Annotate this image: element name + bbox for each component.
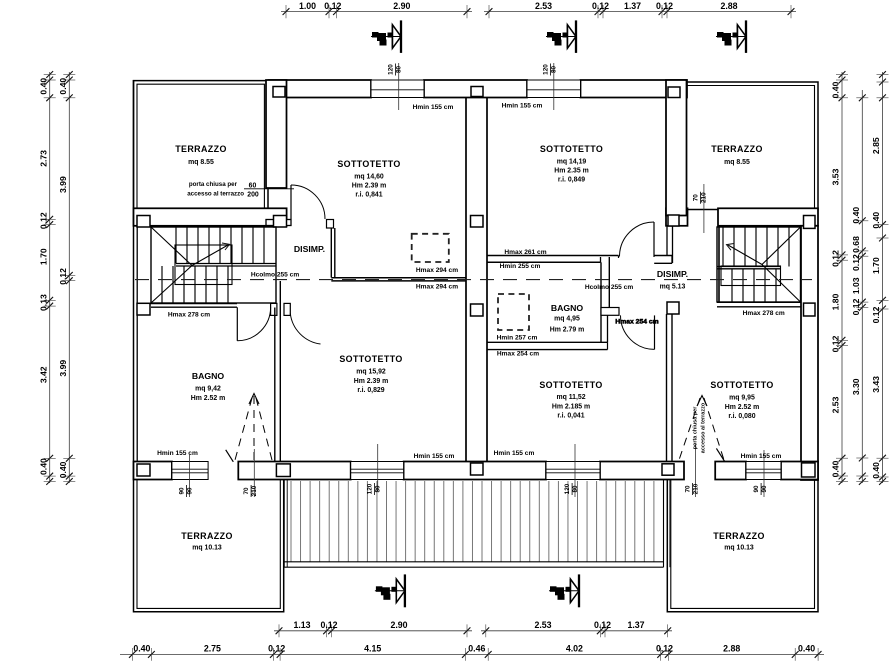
section marker top 3 <box>716 20 746 53</box>
window bottom 90/90 left <box>172 462 208 480</box>
svg-text:0.12: 0.12 <box>592 1 609 11</box>
window bottom 90/90 right <box>746 462 781 480</box>
svg-text:0.40: 0.40 <box>58 461 68 478</box>
section marker top 1 <box>371 20 401 53</box>
svg-text:Hmax 254 cm: Hmax 254 cm <box>497 351 539 358</box>
svg-text:0.12: 0.12 <box>831 335 841 352</box>
wall building left <box>134 80 138 478</box>
terrace bottom-left parapet <box>134 478 284 612</box>
wall bagno bottom right apt <box>487 342 608 349</box>
door centerline bottom right <box>695 444 697 497</box>
svg-text:SOTTOTETTO: SOTTOTETTO <box>339 354 402 364</box>
svg-text:0.12: 0.12 <box>851 298 861 315</box>
svg-text:120: 120 <box>387 64 394 75</box>
svg-text:0.40: 0.40 <box>871 462 881 479</box>
svg-text:1.00: 1.00 <box>299 1 316 11</box>
svg-text:1.13: 1.13 <box>293 620 310 630</box>
svg-text:porta chiusa per: porta chiusa per <box>693 406 699 450</box>
room label bagno left apt <box>191 371 225 402</box>
dimension chain right A <box>831 71 848 485</box>
svg-text:mq 10.13: mq 10.13 <box>724 545 754 552</box>
room label terrazzo bottom-left <box>181 531 233 552</box>
svg-text:Hmax 254 cm: Hmax 254 cm <box>615 319 658 326</box>
svg-text:0.40: 0.40 <box>871 212 881 229</box>
svg-text:0.40: 0.40 <box>133 644 150 654</box>
wall stub left apt below terrace door <box>266 220 291 226</box>
svg-text:Hmin 257 cm: Hmin 257 cm <box>497 335 538 342</box>
dimension chain right C <box>871 71 888 485</box>
label 90/90 bottom left <box>178 485 193 497</box>
svg-text:3.99: 3.99 <box>58 176 68 193</box>
window bottom 120/80 left <box>351 462 404 480</box>
section marker bottom 1 <box>375 574 405 607</box>
svg-text:r.i. 0,841: r.i. 0,841 <box>355 192 382 199</box>
svg-text:Hmax 278 cm: Hmax 278 cm <box>743 310 785 317</box>
room label sottotetto 11,52 <box>539 380 602 419</box>
door terrace top-left leaf and arc <box>291 185 325 219</box>
door lower room left apt arc <box>284 303 321 344</box>
svg-text:2.53: 2.53 <box>831 396 841 413</box>
room label terrazzo top-right <box>711 144 763 166</box>
svg-text:Hm 2.52 m: Hm 2.52 m <box>725 404 759 411</box>
svg-text:70: 70 <box>684 485 691 493</box>
window centerline bottom 90/90 right <box>763 450 765 497</box>
svg-text:90: 90 <box>761 485 768 493</box>
svg-text:mq 5.13: mq 5.13 <box>660 284 686 291</box>
dimension chain right B <box>851 90 868 485</box>
label 70/210 bottom right <box>684 483 699 495</box>
svg-text:Hm 2.79 m: Hm 2.79 m <box>550 327 584 334</box>
svg-text:210: 210 <box>251 485 258 496</box>
svg-text:90: 90 <box>178 487 185 495</box>
label 70/210 terrace right <box>692 192 707 204</box>
window top-right 120/80 <box>527 80 581 98</box>
svg-text:Hmin 155 cm: Hmin 155 cm <box>413 104 454 111</box>
svg-text:0.12: 0.12 <box>268 644 285 654</box>
svg-text:0.40: 0.40 <box>851 207 861 224</box>
svg-text:r.i. 0,041: r.i. 0,041 <box>557 412 584 419</box>
svg-text:mq 14,19: mq 14,19 <box>557 159 587 166</box>
wall bagno right wall right apt <box>601 257 609 342</box>
svg-text:0.40: 0.40 <box>831 81 841 98</box>
svg-text:1.03: 1.03 <box>851 277 861 294</box>
svg-text:Hm 2.39 m: Hm 2.39 m <box>354 378 388 385</box>
svg-text:3.43: 3.43 <box>871 376 881 393</box>
wall partition central right line <box>486 98 488 462</box>
wall below terrace right <box>666 208 818 226</box>
svg-text:SOTTOTETTO: SOTTOTETTO <box>337 159 400 169</box>
svg-text:Hcolmo 255 cm: Hcolmo 255 cm <box>585 284 634 291</box>
slope arrow right apt <box>679 396 724 461</box>
svg-text:70: 70 <box>692 194 699 202</box>
wall stairs left right apt <box>718 227 720 302</box>
wall stairs bottom left apt <box>139 304 237 308</box>
svg-text:120: 120 <box>564 483 571 494</box>
svg-text:80: 80 <box>395 66 402 74</box>
svg-text:0.46: 0.46 <box>468 644 485 654</box>
svg-text:DISIMP.: DISIMP. <box>657 269 688 279</box>
wall terrace-room divider right apt <box>666 80 687 216</box>
dimension chain left outer <box>39 71 56 485</box>
room label sottotetto 9,95 <box>710 380 773 420</box>
svg-text:4.15: 4.15 <box>364 644 381 654</box>
room label sottotetto 15,92 <box>339 354 402 394</box>
svg-text:80: 80 <box>572 485 579 493</box>
slope arrow left apt <box>235 394 272 461</box>
svg-text:2.73: 2.73 <box>39 150 49 167</box>
svg-text:80: 80 <box>374 485 381 493</box>
svg-text:2.75: 2.75 <box>204 644 221 654</box>
svg-text:Hmin 155 cm: Hmin 155 cm <box>157 450 198 457</box>
door centerline bottom left <box>253 449 255 497</box>
svg-text:3.30: 3.30 <box>851 378 861 395</box>
svg-text:120: 120 <box>542 64 549 75</box>
door bagno left apt leaf and arc <box>237 307 270 341</box>
staircase left <box>151 227 276 303</box>
svg-text:r.i. 0,080: r.i. 0,080 <box>728 413 755 420</box>
svg-text:Hmin 155 cm: Hmin 155 cm <box>741 453 782 460</box>
wall building right band <box>801 226 818 480</box>
svg-text:3.53: 3.53 <box>831 168 841 185</box>
svg-text:SOTTOTETTO: SOTTOTETTO <box>539 380 602 390</box>
label 90/90 bottom right <box>753 483 768 495</box>
svg-text:Hcolmo 255 cm: Hcolmo 255 cm <box>251 271 300 278</box>
svg-text:Hmax 278 cm: Hmax 278 cm <box>168 311 210 318</box>
svg-text:2.88: 2.88 <box>720 1 737 11</box>
terrace top-right parapet <box>688 82 819 210</box>
wall top band <box>269 80 688 98</box>
svg-text:3.42: 3.42 <box>39 366 49 383</box>
terrace bottom-right parapet <box>667 478 818 612</box>
window centerline bottom 90/90 left <box>189 455 191 497</box>
window bottom 120/80 right <box>546 462 600 480</box>
svg-text:Hmax 294 cm: Hmax 294 cm <box>416 267 458 274</box>
svg-text:TERRAZZO: TERRAZZO <box>713 531 765 541</box>
svg-text:0.40: 0.40 <box>831 460 841 477</box>
svg-text:Hmin 155 cm: Hmin 155 cm <box>502 103 543 110</box>
svg-text:2.88: 2.88 <box>723 644 740 654</box>
dimension chain left inner <box>58 71 75 485</box>
label porta chiusa right apt rotated <box>693 402 707 453</box>
svg-text:mq 14,60: mq 14,60 <box>354 174 384 181</box>
wall bagno right left apt <box>275 281 281 462</box>
svg-text:2.85: 2.85 <box>871 137 881 154</box>
svg-text:mq 9,42: mq 9,42 <box>195 386 221 393</box>
svg-text:mq 8.55: mq 8.55 <box>724 159 750 166</box>
wall rooms divider horizontal left apt <box>331 278 466 281</box>
room label bagno right apt <box>550 303 584 334</box>
svg-text:mq 11,52: mq 11,52 <box>556 394 585 401</box>
svg-text:DISIMP.: DISIMP. <box>294 244 325 254</box>
svg-text:accesso al terrazzo: accesso al terrazzo <box>187 191 244 198</box>
label porta chiusa top-left <box>187 181 294 199</box>
wall jamb left apt upper door <box>327 220 334 229</box>
svg-text:0.12: 0.12 <box>851 254 861 271</box>
room label sottotetto 14,19 <box>540 144 603 184</box>
wall stairs bottom right apt <box>717 302 801 307</box>
svg-text:2.90: 2.90 <box>390 620 407 630</box>
wall stub bagno door right apt <box>601 308 619 316</box>
wall room bottom right apt <box>487 256 619 263</box>
svg-text:200: 200 <box>247 192 259 199</box>
svg-text:Hmax 294 cm: Hmax 294 cm <box>416 283 458 290</box>
svg-text:120: 120 <box>366 483 373 494</box>
label 120/80 top-left <box>387 64 402 76</box>
window centerline bottom 120 right <box>574 444 576 497</box>
wall jamb left apt bagno door <box>271 303 277 315</box>
svg-text:mq 15,92: mq 15,92 <box>356 369 386 376</box>
svg-text:210: 210 <box>700 192 707 203</box>
svg-text:1.70: 1.70 <box>39 248 49 265</box>
wall disimp-room vertical left apt <box>331 228 335 278</box>
window centerline top-right <box>553 63 555 110</box>
svg-text:0.40: 0.40 <box>798 644 815 654</box>
wall piece right of door right apt <box>654 256 672 264</box>
svg-text:2.53: 2.53 <box>534 620 551 630</box>
svg-text:mq 9,95: mq 9,95 <box>729 395 755 402</box>
ridge dashed line <box>135 279 812 281</box>
svg-text:90: 90 <box>753 485 760 493</box>
room label sottotetto 14,60 <box>337 159 400 199</box>
svg-text:Hm 2.185 m: Hm 2.185 m <box>552 403 590 410</box>
svg-text:1.80: 1.80 <box>831 293 841 310</box>
svg-text:mq 8.55: mq 8.55 <box>188 159 214 166</box>
svg-text:80: 80 <box>550 66 557 74</box>
svg-text:BAGNO: BAGNO <box>192 371 225 381</box>
terrace top-left parapet <box>134 81 269 208</box>
svg-text:Hm 2.52 m: Hm 2.52 m <box>191 395 225 402</box>
svg-text:0.12: 0.12 <box>656 1 673 11</box>
svg-text:0.12: 0.12 <box>58 268 68 285</box>
svg-text:porta chiusa per: porta chiusa per <box>189 181 238 188</box>
svg-text:mq 4,95: mq 4,95 <box>554 316 580 323</box>
section marker bottom 2 <box>549 574 579 607</box>
svg-text:0.68: 0.68 <box>851 236 861 253</box>
svg-text:0.12: 0.12 <box>324 1 341 11</box>
svg-text:0.40: 0.40 <box>39 78 49 95</box>
svg-text:r.i. 0,849: r.i. 0,849 <box>558 177 585 184</box>
section marker top 2 <box>546 20 576 53</box>
wall partition rooms right apt <box>667 314 673 462</box>
room label terrazzo top-left <box>175 144 227 166</box>
svg-text:Hmax 261 cm: Hmax 261 cm <box>504 249 546 256</box>
wall below terrace left <box>134 208 287 226</box>
svg-text:accesso al terrazzo: accesso al terrazzo <box>701 402 707 453</box>
window centerline top-left <box>398 63 400 110</box>
balcony hatch <box>284 480 670 567</box>
svg-text:0.13: 0.13 <box>39 294 49 311</box>
svg-text:mq 10.13: mq 10.13 <box>192 545 222 552</box>
door centerline terrace right <box>703 184 705 233</box>
svg-text:TERRAZZO: TERRAZZO <box>711 144 763 154</box>
door bagno right apt leaf and arc <box>621 315 655 349</box>
wall bottom band <box>134 462 819 480</box>
window centerline bottom 120 left <box>377 444 379 491</box>
skylight dashed left apt <box>412 234 449 262</box>
wall segment disimp right apt <box>667 226 673 263</box>
wall terrace-room divider left apt <box>266 80 287 188</box>
dimension chain bottom inner <box>274 620 672 637</box>
svg-text:1.37: 1.37 <box>624 1 641 11</box>
svg-text:70: 70 <box>243 487 250 495</box>
svg-text:0.12: 0.12 <box>594 620 611 630</box>
dimension chain bottom outer <box>120 644 824 661</box>
label 70/210 bottom left <box>243 485 258 497</box>
svg-text:0.12: 0.12 <box>656 644 673 654</box>
svg-text:Hmin 155 cm: Hmin 155 cm <box>494 450 535 457</box>
svg-text:0.40: 0.40 <box>58 78 68 95</box>
label 120/80 bottom left <box>366 483 381 495</box>
svg-text:SOTTOTETTO: SOTTOTETTO <box>540 144 603 154</box>
svg-text:Hmin 255 cm: Hmin 255 cm <box>500 263 541 270</box>
svg-text:Hmin 155 cm: Hmin 155 cm <box>414 453 455 460</box>
svg-text:1.70: 1.70 <box>871 257 881 274</box>
svg-text:0.12: 0.12 <box>831 250 841 267</box>
dimension chain top <box>281 1 796 18</box>
svg-text:1.37: 1.37 <box>627 620 644 630</box>
label 120/80 bottom right <box>564 483 579 495</box>
svg-text:4.02: 4.02 <box>566 644 583 654</box>
svg-text:2.53: 2.53 <box>535 1 552 11</box>
room label terrazzo bottom-right <box>713 531 765 552</box>
svg-text:SOTTOTETTO: SOTTOTETTO <box>710 380 773 390</box>
door bottom right 70/210 leaf <box>716 448 725 461</box>
svg-text:Hm 2.39 m: Hm 2.39 m <box>352 183 386 190</box>
window top-left 120/80 <box>371 80 424 98</box>
skylight dashed right apt bagno <box>498 294 529 330</box>
svg-text:2.90: 2.90 <box>393 1 410 11</box>
door room 14,19 right apt leaf and arc <box>620 222 655 257</box>
svg-text:0.12: 0.12 <box>871 306 881 323</box>
door bottom left 70/210 leaf <box>226 450 234 462</box>
label 120/80 top-right <box>542 64 557 76</box>
svg-text:0.12: 0.12 <box>320 620 337 630</box>
wall partition central left line <box>465 98 467 462</box>
svg-text:BAGNO: BAGNO <box>551 303 584 313</box>
pillars <box>137 87 815 478</box>
staircase right <box>717 227 801 302</box>
svg-text:0.40: 0.40 <box>39 458 49 475</box>
svg-text:r.i. 0,829: r.i. 0,829 <box>357 387 384 394</box>
svg-text:90: 90 <box>186 487 193 495</box>
svg-text:60: 60 <box>249 182 257 189</box>
svg-text:210: 210 <box>692 483 699 494</box>
svg-text:TERRAZZO: TERRAZZO <box>175 144 227 154</box>
svg-text:3.99: 3.99 <box>58 360 68 377</box>
svg-text:0.12: 0.12 <box>39 212 49 229</box>
svg-text:TERRAZZO: TERRAZZO <box>181 531 233 541</box>
svg-text:Hm 2.35 m: Hm 2.35 m <box>554 168 588 175</box>
